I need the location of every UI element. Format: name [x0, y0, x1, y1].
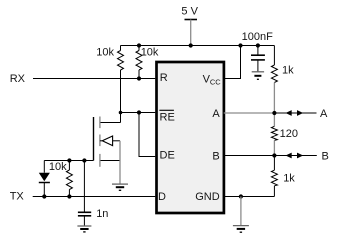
transistor Q1 body arrow [100, 140, 102, 142]
transistor Q1 channel dashes [99, 117, 101, 167]
arrows on A line [286, 110, 292, 116]
resistor 120 (termination) [271, 126, 277, 140]
svg-text:GND: GND [195, 191, 220, 203]
wire left 10k down to drain node [120, 70, 122, 123]
ground (under C1) [252, 72, 264, 80]
svg-text:10k: 10k [141, 47, 159, 59]
node rail-100nF junction [256, 43, 260, 47]
ground (under Q1 source) [112, 184, 128, 190]
resistor 1k (B pull-down) [273, 156, 275, 171]
svg-text:R: R [160, 72, 168, 84]
arrows on B line [286, 153, 292, 159]
svg-text:TX: TX [10, 190, 25, 202]
svg-text:100nF: 100nF [242, 31, 273, 43]
wire A node to label [274, 112, 316, 114]
svg-text:A: A [212, 108, 220, 120]
svg-text:DE: DE [160, 150, 175, 162]
diode D1 [43, 161, 45, 173]
ground (main) [233, 226, 249, 233]
node drain tap junction [119, 111, 123, 115]
wire Q1 drain lead [101, 122, 121, 124]
node R junction [137, 76, 141, 80]
wire B node to label [274, 155, 316, 157]
wire DE branch [139, 113, 155, 157]
wire Q1 source lead [101, 160, 121, 162]
svg-text:120: 120 [280, 128, 298, 140]
svg-text:CC: CC [210, 78, 221, 87]
transistor Q1 N-MOSFET gate bar [93, 117, 95, 161]
svg-text:10k: 10k [49, 161, 67, 173]
resistor 10k (left pull-up) [120, 46, 122, 51]
wire 1k to A node [273, 83, 275, 127]
wire Vcc pin to rail riser [224, 46, 241, 79]
wire 5V rail [121, 45, 275, 47]
wire 120 to B node [273, 140, 275, 155]
svg-text:10k: 10k [96, 47, 114, 59]
node rail-5V junction [189, 43, 193, 47]
svg-text:1k: 1k [282, 65, 294, 77]
svg-text:RE: RE [160, 111, 175, 123]
svg-text:5 V: 5 V [181, 6, 198, 18]
wire right 10k to R wire [138, 70, 140, 79]
svg-text:RX: RX [10, 73, 26, 85]
node B junction [272, 153, 276, 157]
node diode-TX junction [42, 194, 46, 198]
node GND junction [239, 194, 243, 198]
wire gate node (TX filter output) [44, 160, 93, 162]
resistor 10k (right pull-up) [138, 46, 140, 51]
svg-text:B: B [212, 150, 219, 162]
svg-text:1k: 1k [283, 172, 295, 184]
node A junction [272, 111, 276, 115]
node RE/DE junction [137, 110, 141, 114]
svg-text:D: D [158, 191, 166, 203]
wire B pin to node [224, 155, 275, 157]
wire RE pin tap [121, 112, 156, 114]
resistor 1k (A pull-up) [273, 46, 275, 66]
node 10k-TX junction [67, 194, 71, 198]
node rail-Vcc junction [238, 43, 242, 47]
node rail-10k junction [137, 43, 141, 47]
wire 5V lead down to rail [190, 20, 192, 46]
svg-text:A: A [320, 108, 328, 120]
wire GND pin to ground [224, 196, 275, 198]
node 10k top junction [67, 158, 71, 162]
ground (under C2) [77, 226, 91, 232]
wire 1k bottom to GND wire [273, 186, 275, 197]
svg-text:1n: 1n [96, 208, 108, 220]
node 1n branch junction [82, 158, 86, 162]
IC U1 (RS-485 transceiver body) [157, 62, 224, 213]
svg-text:B: B [322, 150, 329, 162]
wire Q1 body/source to ground [119, 141, 121, 184]
capacitor C2 1n [83, 161, 85, 213]
wire A pin to node [224, 112, 275, 114]
